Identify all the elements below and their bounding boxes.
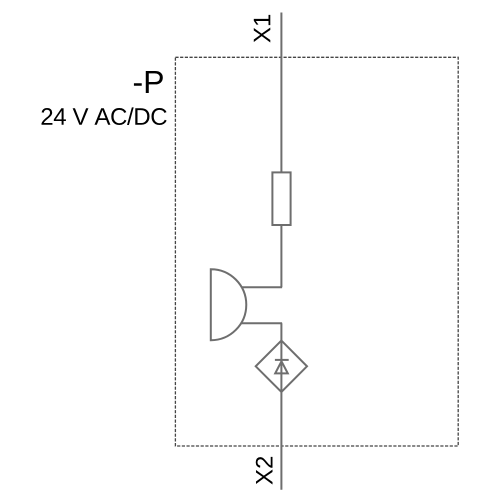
wire horizontal to buzzer top bbox=[242, 286, 283, 288]
label -P bbox=[134, 71, 163, 93]
wire resistor to buzzer branch bbox=[280, 225, 282, 287]
buzzer H1 bbox=[211, 269, 246, 340]
wire horizontal from buzzer bottom bbox=[242, 322, 283, 324]
wire X1 to resistor bbox=[280, 13, 282, 173]
terminal label X1 bbox=[254, 15, 271, 43]
diode cathode bar bbox=[275, 359, 289, 361]
label 24 V AC/DC bbox=[42, 107, 167, 125]
resistor R1 bbox=[272, 172, 290, 225]
LED indicator diamond bbox=[256, 341, 307, 392]
diode triangle bbox=[275, 361, 288, 373]
dashed enclosure (device boundary) bbox=[175, 57, 458, 446]
terminal label X2 bbox=[256, 457, 273, 485]
wire buzzer branch to LED and X2 bbox=[280, 323, 282, 490]
